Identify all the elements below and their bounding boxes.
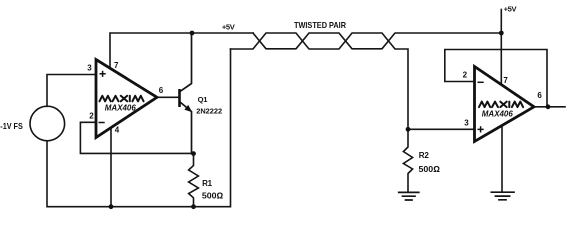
svg-text:+5V: +5V bbox=[222, 22, 236, 31]
svg-text:7: 7 bbox=[503, 76, 508, 85]
svg-text:R1: R1 bbox=[202, 179, 213, 188]
svg-text:TWISTED PAIR: TWISTED PAIR bbox=[294, 20, 346, 30]
svg-text:3: 3 bbox=[87, 63, 92, 72]
svg-text:2N2222: 2N2222 bbox=[196, 106, 222, 115]
svg-text:+5V: +5V bbox=[504, 5, 518, 14]
svg-text:Q1: Q1 bbox=[198, 95, 209, 104]
svg-text:R2: R2 bbox=[419, 151, 430, 160]
svg-text:MAX406: MAX406 bbox=[482, 108, 513, 118]
svg-text:500Ω: 500Ω bbox=[419, 164, 441, 174]
svg-text:2: 2 bbox=[463, 71, 468, 80]
svg-text:7: 7 bbox=[114, 61, 119, 70]
svg-text:6: 6 bbox=[159, 86, 164, 95]
svg-text:3: 3 bbox=[464, 119, 469, 128]
svg-text:6: 6 bbox=[537, 91, 542, 100]
svg-text:4: 4 bbox=[115, 125, 120, 134]
svg-text:500Ω: 500Ω bbox=[202, 191, 224, 201]
svg-text:-1V FS: -1V FS bbox=[0, 121, 23, 131]
svg-text:2: 2 bbox=[89, 112, 94, 121]
svg-text:MAX406: MAX406 bbox=[105, 103, 136, 113]
